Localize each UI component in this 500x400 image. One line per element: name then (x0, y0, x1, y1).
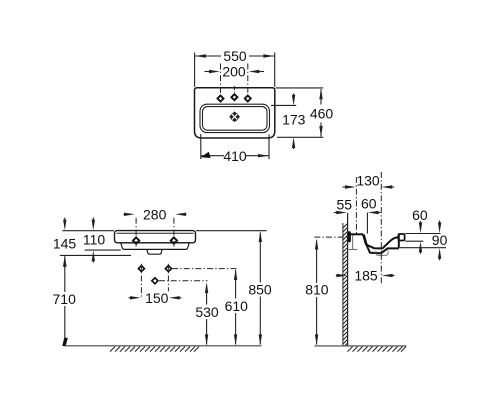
faucet hole center (231, 94, 237, 100)
centerline right faucet hole (247, 64, 249, 98)
dimension 110 arrows (92, 218, 95, 263)
side view trap (376, 251, 388, 256)
centerline center faucet hole (233, 86, 235, 93)
dimension 145 arrows (63, 218, 66, 269)
floor hatching front view (110, 347, 199, 352)
svg-text:130: 130 (356, 172, 380, 188)
svg-text:550: 550 (223, 48, 247, 64)
dimension 60 left text (361, 196, 377, 212)
wall face line side view (347, 213, 349, 346)
dimension 90 text (432, 232, 448, 248)
front view trap (147, 250, 162, 255)
front view apron (121, 243, 189, 250)
dimension 810 text (304, 282, 330, 298)
svg-text:810: 810 (305, 282, 329, 298)
dimension 530 text (195, 304, 220, 320)
dimension 130 arrows (343, 185, 395, 188)
dimension 55 arrow (334, 211, 347, 214)
dimension 130 text (356, 172, 380, 188)
dimension 60 right arrows (419, 221, 422, 254)
top view inner rim outer line (200, 104, 270, 132)
supply connection left (138, 266, 144, 272)
front view mounting hole right (171, 237, 177, 243)
dimension 280 arrows (124, 213, 187, 216)
dimension 610 text (224, 298, 250, 314)
centerline left faucet hole (220, 64, 222, 98)
dimension 150 text (144, 290, 169, 306)
centerline drain horizontal (159, 280, 208, 282)
centerline supply right vertical (167, 264, 169, 303)
mounting bracket side view (348, 231, 351, 242)
supply connection right (165, 266, 171, 272)
floor line side view (314, 345, 406, 347)
faucet hole right (245, 96, 251, 102)
svg-text:530: 530 (195, 304, 219, 320)
extension line 60 right top (405, 233, 440, 235)
side profile top surface (350, 233, 363, 235)
svg-text:173: 173 (282, 112, 306, 128)
dimension 550 extension line right (274, 53, 276, 87)
dimension 60 right text (412, 207, 428, 223)
dimension 200 arrows (205, 70, 265, 73)
dimension 200 text (222, 64, 246, 80)
wall back line side view (342, 223, 344, 346)
front view basin body (115, 231, 196, 243)
dimension 550 text (223, 48, 247, 64)
dimension 410 extension line left (200, 134, 202, 159)
side profile outer shell (364, 235, 399, 253)
dimension 90 arrows (438, 221, 441, 261)
svg-text:145: 145 (53, 235, 77, 251)
dimension 280 text (143, 206, 167, 222)
top view inner rim inner line (203, 107, 268, 131)
side profile inner bowl (363, 234, 398, 248)
dimension 110 reference line (85, 249, 121, 251)
dimension 550 line and arrows (195, 54, 274, 57)
dimension 145 text (53, 235, 77, 251)
dimension 460 extension line top (276, 87, 324, 89)
svg-text:110: 110 (83, 232, 106, 248)
extension line lip bottom (405, 240, 423, 242)
dimension 60 left extension line (366, 213, 368, 234)
svg-text:280: 280 (143, 206, 167, 222)
dimension 460 text (310, 106, 334, 122)
centerline supply left vertical (140, 264, 142, 297)
side profile front edge (398, 235, 400, 249)
dimension 185 arrows (336, 274, 395, 277)
dimension 410 extension line right (268, 135, 270, 160)
dimension 173 extension line (271, 104, 296, 106)
svg-text:200: 200 (222, 64, 246, 80)
dimension 710 text (52, 291, 77, 307)
front top extension line right (196, 230, 267, 232)
dimension 110 text (82, 232, 106, 248)
centerline supply horizontal (172, 268, 238, 270)
side centerline 1 (355, 177, 357, 234)
dimension 145 reference line (60, 254, 131, 256)
side profile back edge thin line (352, 236, 354, 250)
floor hatching side view (348, 347, 407, 352)
front view rim inner line (117, 232, 194, 234)
dimension 150 arrows (129, 296, 182, 299)
dimension 55 text (337, 197, 353, 213)
centerline front hole right (173, 218, 175, 247)
dimension 850 text (248, 282, 274, 298)
drain outlet mark (152, 278, 158, 284)
extension line bowl underside (400, 247, 446, 249)
svg-text:850: 850 (248, 282, 272, 298)
svg-text:150: 150 (145, 290, 169, 306)
floor line front view (64, 345, 262, 347)
svg-text:410: 410 (223, 148, 247, 164)
svg-text:60: 60 (361, 196, 377, 212)
svg-text:710: 710 (53, 291, 77, 307)
dimension 460 extension line bottom (277, 136, 323, 138)
dimension 710 line and arrows (62, 256, 68, 346)
dimension 410 line and arrows (201, 152, 269, 158)
dimension 550 extension line left (194, 53, 196, 87)
dimension 610 line and arrows (234, 269, 237, 345)
front view mounting hole left (133, 237, 139, 243)
dimension 185 text (354, 268, 378, 284)
dimension 410 text (223, 148, 247, 164)
svg-text:185: 185 (354, 268, 378, 284)
dimension 460 line and arrows (319, 89, 322, 137)
svg-text:610: 610 (225, 298, 249, 314)
faucet hole left (218, 96, 224, 102)
side profile underside thin line (348, 248, 357, 250)
side centerline 2 (380, 172, 382, 284)
side horizontal centerline (314, 236, 347, 238)
svg-text:460: 460 (310, 106, 334, 122)
centerline front hole left (135, 218, 137, 247)
svg-text:60: 60 (412, 207, 428, 223)
wall hatching (343, 223, 348, 345)
dimension 850 line and arrows (259, 231, 262, 345)
dimension 173 arrows (292, 94, 295, 150)
svg-text:90: 90 (432, 232, 448, 248)
side profile front lip (398, 234, 404, 241)
front top extension line left (62, 230, 114, 232)
dimension 810 line and arrows (315, 239, 318, 346)
top view basin outline (194, 88, 274, 138)
svg-text:55: 55 (337, 197, 353, 213)
dimension 60 left arrow (368, 211, 381, 214)
dimension 530 line and arrows (205, 282, 208, 345)
dimension 173 text (282, 112, 306, 128)
drain symbol top view (229, 111, 240, 122)
